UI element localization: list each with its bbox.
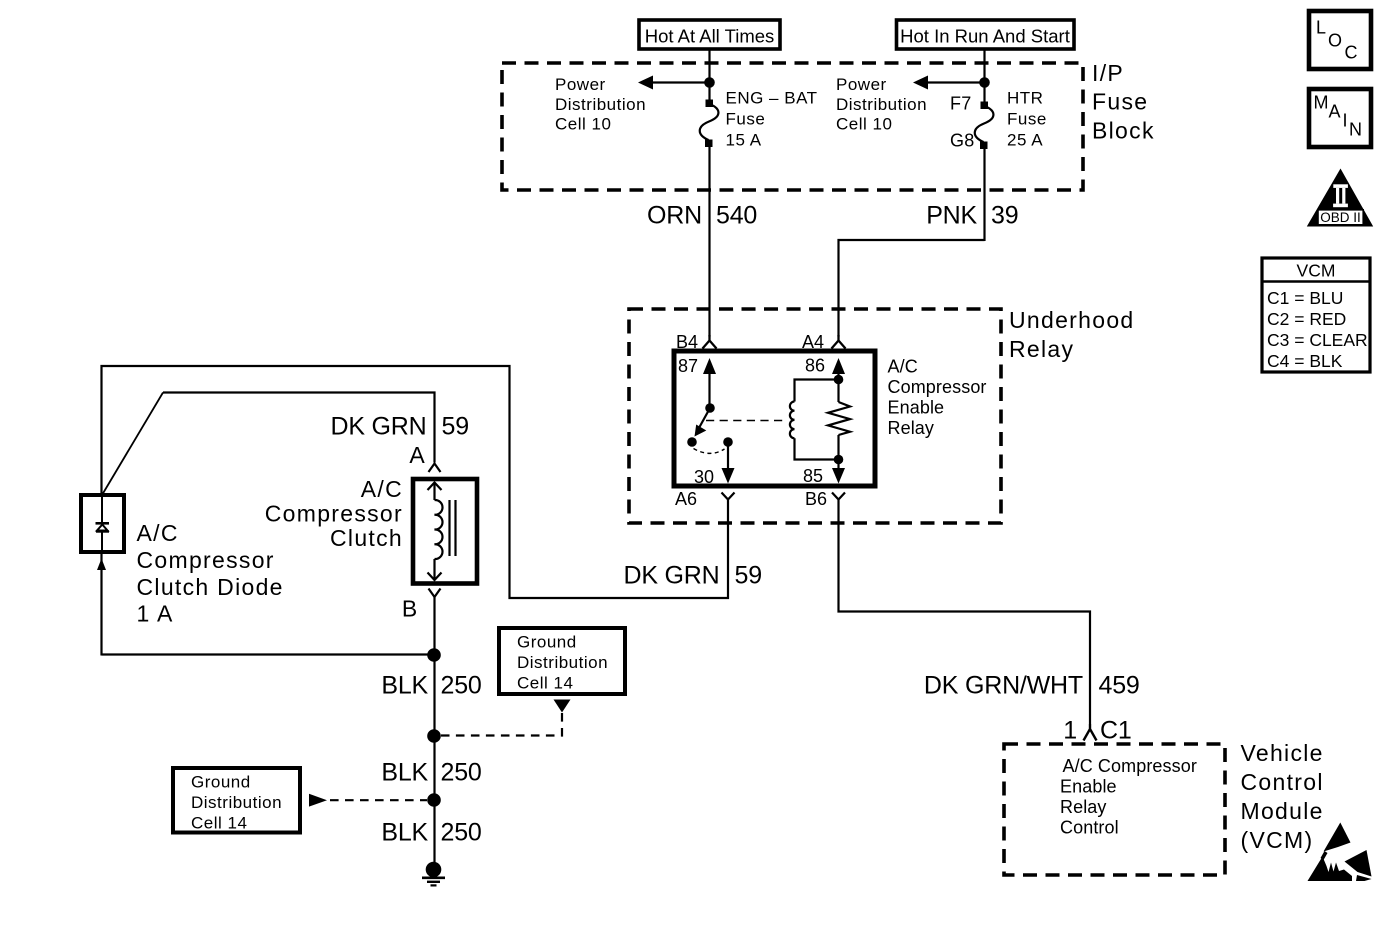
relay control dashed line (706, 420, 786, 422)
Ground Distribution Cell 14 box (left) (173, 768, 300, 833)
svg-text:BLK: BLK (381, 759, 428, 787)
svg-text:A: A (409, 442, 426, 468)
wire PNK 39 from fuse down (983, 149, 985, 241)
svg-text:I: I (1343, 111, 1348, 131)
svg-text:Enable: Enable (1060, 777, 1117, 797)
connector A at clutch (409, 442, 440, 472)
svg-text:250: 250 (441, 672, 482, 700)
power distribution arrow (right) (913, 76, 985, 90)
svg-text:250: 250 (441, 819, 482, 847)
switch pivot contact dot (705, 403, 715, 413)
relay coil (790, 380, 839, 460)
svg-text:B6: B6 (805, 489, 827, 509)
wire horizontal diode return (102, 653, 435, 655)
connector B at clutch (402, 589, 441, 622)
wire BLK 250 from clutch B to ground (433, 597, 435, 869)
svg-text:59: 59 (735, 562, 762, 590)
switch travel dashed arc (694, 449, 725, 454)
clutch plates (450, 500, 456, 556)
dashed reference lead to left ground box (309, 794, 427, 807)
svg-text:A: A (1329, 102, 1341, 122)
A/C Compressor Clutch box (413, 479, 477, 584)
svg-text:A6: A6 (675, 489, 697, 509)
svg-text:Block: Block (1092, 118, 1155, 144)
ground G symbol (422, 862, 445, 886)
svg-text:PNK: PNK (926, 202, 977, 230)
svg-text:Compressor: Compressor (888, 377, 987, 397)
svg-text:Cell 14: Cell 14 (191, 814, 247, 833)
svg-text:A/C: A/C (361, 476, 403, 502)
power distribution arrow (left) (638, 76, 710, 90)
junction node ground splice 2 (427, 793, 441, 807)
svg-text:HTR: HTR (1007, 89, 1043, 108)
label box "Hot At All Times" (639, 20, 780, 49)
svg-text:N: N (1349, 120, 1362, 140)
svg-text:Control: Control (1241, 769, 1324, 795)
svg-text:Fuse: Fuse (1007, 110, 1047, 129)
coil top junction dot (834, 375, 844, 385)
svg-text:Distribution: Distribution (836, 95, 927, 114)
svg-text:M: M (1314, 93, 1329, 113)
svg-text:Relay: Relay (1060, 797, 1107, 817)
svg-text:Compressor: Compressor (137, 547, 275, 573)
wire below diode with direction arrow (97, 552, 106, 656)
connector B4 (676, 332, 717, 352)
svg-text:Clutch Diode: Clutch Diode (137, 574, 284, 600)
svg-text:C1: C1 (1100, 717, 1132, 745)
top wedge (1324, 823, 1351, 852)
relay U1 A/C Compressor Enable Relay box (674, 351, 875, 486)
connector A4 (802, 332, 846, 352)
connector A6 (675, 489, 735, 509)
svg-text:Distribution: Distribution (517, 653, 608, 672)
svg-text:Relay: Relay (888, 418, 935, 438)
svg-text:B: B (402, 596, 419, 622)
svg-text:(VCM): (VCM) (1241, 827, 1314, 853)
svg-text:Enable: Enable (888, 398, 945, 418)
fuse ENG-BAT 15 A (700, 100, 719, 148)
svg-text:Cell 10: Cell 10 (836, 115, 892, 134)
svg-text:Distribution: Distribution (555, 95, 646, 114)
switch fixed contact dot (687, 437, 697, 447)
dashed reference lead to right ground box (441, 700, 571, 736)
pin 30 lead with arrow (722, 446, 735, 484)
wire DK GRN/WHT 459 from relay B6 to VCM (839, 506, 1091, 724)
svg-text:VCM: VCM (1297, 261, 1336, 281)
svg-text:Ground: Ground (517, 633, 577, 652)
thumb sliver (1321, 851, 1328, 860)
svg-text:540: 540 (716, 202, 757, 230)
svg-text:C4 = BLK: C4 = BLK (1267, 351, 1343, 371)
svg-text:F7: F7 (950, 94, 971, 114)
svg-text:87: 87 (678, 356, 698, 376)
ESD sensitivity symbol (1308, 823, 1372, 882)
svg-text:C2 = RED: C2 = RED (1267, 309, 1346, 329)
svg-text:Fuse: Fuse (726, 110, 766, 129)
svg-text:Control: Control (1060, 818, 1119, 838)
svg-text:250: 250 (441, 759, 482, 787)
connector B6 (805, 489, 845, 509)
right wedge (1345, 850, 1372, 877)
diode D1 A/C Compressor Clutch Diode box (81, 495, 124, 552)
svg-text:Power: Power (555, 75, 606, 94)
svg-text:15 A: 15 A (726, 131, 762, 150)
svg-text:ENG – BAT: ENG – BAT (726, 89, 818, 108)
pin 30 contact dot (723, 437, 733, 447)
junction node ground splice 1 (427, 729, 441, 743)
svg-text:39: 39 (991, 202, 1018, 230)
svg-text:Cell 10: Cell 10 (555, 115, 611, 134)
svg-text:C: C (1345, 43, 1358, 63)
wire diagonal from diode to clutch feed (102, 393, 163, 496)
svg-text:Underhood: Underhood (1009, 307, 1135, 333)
svg-text:DK GRN/WHT: DK GRN/WHT (924, 672, 1083, 700)
svg-text:459: 459 (1099, 672, 1140, 700)
junction node on ENG-BAT feed (704, 77, 715, 88)
bottom right sliver (1356, 875, 1372, 881)
svg-text:BLK: BLK (381, 819, 428, 847)
svg-text:Fuse: Fuse (1092, 89, 1148, 115)
svg-text:B4: B4 (676, 332, 698, 352)
svg-text:C3 = CLEAR: C3 = CLEAR (1267, 330, 1368, 350)
wire DK GRN 59 from relay A6 to left loop (102, 366, 729, 598)
svg-text:Clutch: Clutch (330, 525, 403, 551)
svg-text:Power: Power (836, 75, 887, 94)
diode symbol (96, 495, 110, 552)
svg-text:DK GRN: DK GRN (623, 562, 719, 590)
relay resistor (828, 380, 850, 460)
svg-text:Compressor: Compressor (265, 501, 403, 527)
pin 87 arrow (703, 358, 716, 404)
svg-text:ORN: ORN (647, 202, 702, 230)
MAIN legend box (1309, 89, 1371, 147)
junction node clutch/diode return (427, 648, 441, 662)
lower-left body with hand fingers (1308, 857, 1353, 882)
Vehicle Control Module dashed box (1004, 744, 1225, 875)
svg-text:A/C: A/C (888, 357, 918, 377)
coil bottom junction dot (834, 455, 844, 465)
svg-text:85: 85 (803, 466, 823, 486)
pin 86 arrow (832, 358, 845, 378)
label box "Hot In Run And Start" (897, 20, 1075, 49)
svg-text:Vehicle: Vehicle (1241, 740, 1324, 766)
svg-text:C1 = BLU: C1 = BLU (1267, 288, 1343, 308)
svg-text:Cell 14: Cell 14 (517, 674, 573, 693)
clutch coil with arrows (428, 483, 443, 581)
svg-text:OBD II: OBD II (1320, 210, 1361, 225)
svg-text:25 A: 25 A (1007, 131, 1043, 150)
Ground Distribution Cell 14 box (right) (499, 628, 625, 694)
wire ORN 540 from fuse to relay B4 (708, 147, 710, 337)
fuse HTR 25 A (975, 102, 994, 150)
svg-text:Hot At All Times: Hot At All Times (645, 26, 775, 47)
svg-text:A/C Compressor: A/C Compressor (1063, 756, 1197, 776)
I/P Fuse Block dashed box (502, 63, 1083, 190)
junction node on HTR feed (979, 77, 990, 88)
VCM connector color legend table (1262, 258, 1370, 372)
svg-text:Relay: Relay (1009, 336, 1074, 362)
svg-text:59: 59 (442, 413, 469, 441)
LOC legend box (1309, 11, 1371, 69)
svg-text:A/C: A/C (137, 520, 179, 546)
svg-text:G8: G8 (950, 131, 974, 151)
svg-text:I/P: I/P (1092, 60, 1124, 86)
pin 85 arrow (832, 460, 845, 484)
OBD II symbol (1307, 169, 1373, 227)
svg-text:1 A: 1 A (137, 601, 174, 627)
svg-text:A4: A4 (802, 332, 824, 352)
connector 1 C1 at VCM (1063, 717, 1131, 745)
wire horizontal to clutch A (163, 393, 435, 463)
svg-text:Module: Module (1241, 798, 1324, 824)
wire PNK jog to A4 column (839, 240, 985, 337)
svg-text:86: 86 (805, 356, 825, 376)
svg-text:DK GRN: DK GRN (330, 413, 426, 441)
svg-text:30: 30 (694, 467, 714, 487)
wire from Hot At All Times into fuse block (708, 49, 710, 100)
wire from Hot In Run And Start into fuse block (983, 49, 985, 102)
svg-text:Ground: Ground (191, 773, 251, 792)
svg-text:BLK: BLK (381, 672, 428, 700)
svg-text:Hot In Run And Start: Hot In Run And Start (900, 26, 1070, 47)
svg-text:1: 1 (1063, 717, 1077, 745)
svg-text:Distribution: Distribution (191, 793, 282, 812)
svg-text:L: L (1316, 18, 1326, 38)
Underhood Relay dashed box (629, 309, 1001, 523)
svg-text:O: O (1328, 31, 1342, 51)
switch arm with arrowhead (695, 408, 711, 437)
